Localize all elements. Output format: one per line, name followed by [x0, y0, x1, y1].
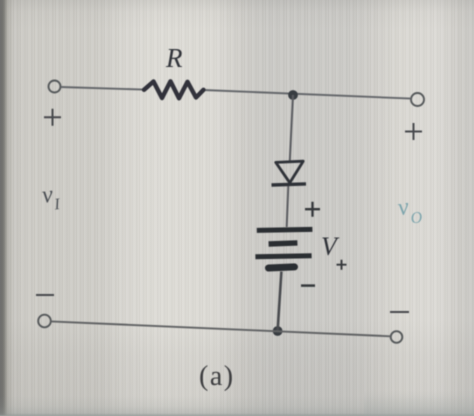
svg-text:v: v: [396, 194, 411, 221]
svg-text:O: O: [410, 209, 425, 228]
svg-text:I: I: [52, 196, 61, 214]
svg-text:V: V: [321, 232, 340, 261]
svg-text:R: R: [165, 43, 183, 73]
svg-text:v: v: [41, 182, 55, 209]
svg-text:(a): (a): [199, 361, 235, 392]
